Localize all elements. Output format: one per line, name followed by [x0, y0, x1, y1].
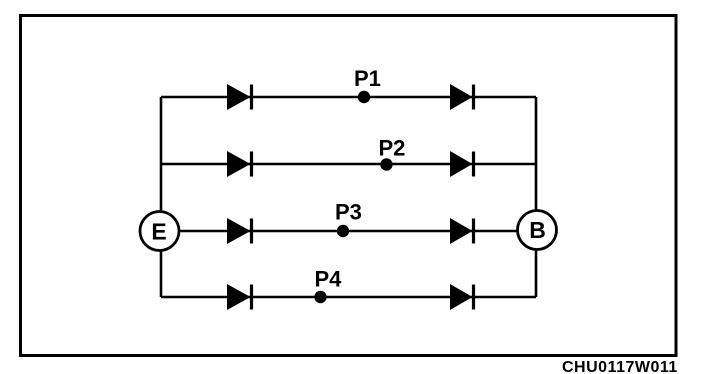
svg-text:P1: P1 [354, 66, 381, 91]
svg-text:E: E [151, 219, 166, 245]
svg-text:B: B [529, 217, 546, 243]
svg-text:P4: P4 [315, 267, 343, 292]
svg-text:P2: P2 [379, 136, 406, 161]
svg-text:P3: P3 [335, 200, 362, 225]
svg-text:CHU0117W011: CHU0117W011 [562, 359, 678, 374]
